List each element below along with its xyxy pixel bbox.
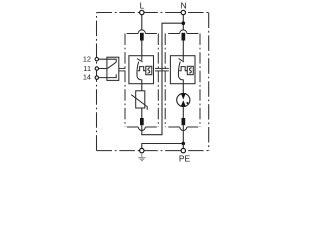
- terminal PE (open circle): [181, 148, 185, 152]
- wire block to disconnector box module 1: [141, 41, 143, 56]
- wire block to PE junction: [182, 125, 184, 143]
- wire N terminal down to module 2 plug: [182, 15, 184, 31]
- module 1 (varistor protection module) dash-dot boundary with plug bumps: [125, 30, 158, 131]
- wire earth rail to PE junction: [142, 144, 184, 149]
- svg-text:14: 14: [83, 72, 91, 81]
- wire L terminal down to module 1 plug: [141, 15, 143, 31]
- wire box to spark gap: [182, 84, 184, 94]
- disconnector box U1 (module 1, disconnection device with status indication): [129, 56, 154, 84]
- wire block to disconnector box module 2: [182, 41, 184, 56]
- module 2 (spark gap module) dash-dot boundary with plug bumps: [165, 30, 200, 131]
- varistor RV1 (metal oxide varistor): [131, 91, 147, 110]
- terminal earth (open circle, bottom left): [140, 148, 144, 152]
- terminal L (open circle): [140, 10, 144, 14]
- thermal element (top, module 2) black block: [182, 33, 186, 41]
- thermal element (top, module 1) black block: [140, 33, 144, 41]
- wire varistor output to N (1+1 circuit): down, right, up, right to node: [142, 23, 184, 135]
- ground (earth symbol, grey): [138, 153, 145, 161]
- svg-text:12: 12: [83, 55, 91, 64]
- terminal 14 (open circle): [95, 76, 98, 79]
- thermal element (bottom, module 1) black block: [140, 118, 144, 125]
- terminal N (open circle): [181, 10, 185, 14]
- wire spark gap to bottom thermal element: [182, 107, 184, 118]
- wire block through plug bump module 1: [141, 125, 143, 130]
- wire box to varistor: [141, 84, 143, 91]
- svg-text:L: L: [140, 1, 145, 11]
- svg-text:N: N: [181, 1, 187, 11]
- svg-text:PE: PE: [179, 153, 191, 163]
- terminal 11 (open circle): [95, 67, 98, 70]
- spark gap F1 (circle with opposing arrows): [177, 93, 190, 106]
- thermal element (bottom, module 2) black block: [182, 118, 186, 125]
- mechanical linkage module1-to-module2 (double line): [155, 68, 169, 71]
- wire varistor to bottom thermal element: [141, 108, 143, 118]
- disconnector box U2 (module 2, disconnection device with status indication): [170, 56, 195, 84]
- terminal 12 (open circle): [95, 58, 98, 61]
- remote signalling contact S1 (changeover, terminals 12/11/14): [99, 57, 119, 80]
- node: PE junction dot: [182, 142, 186, 146]
- node: N junction dot: [182, 21, 186, 25]
- wire PE junction down to PE terminal: [182, 144, 184, 149]
- enclosure (device) dash-dot border: [97, 13, 209, 151]
- mechanical linkage contact-to-module1 (double line): [119, 68, 126, 71]
